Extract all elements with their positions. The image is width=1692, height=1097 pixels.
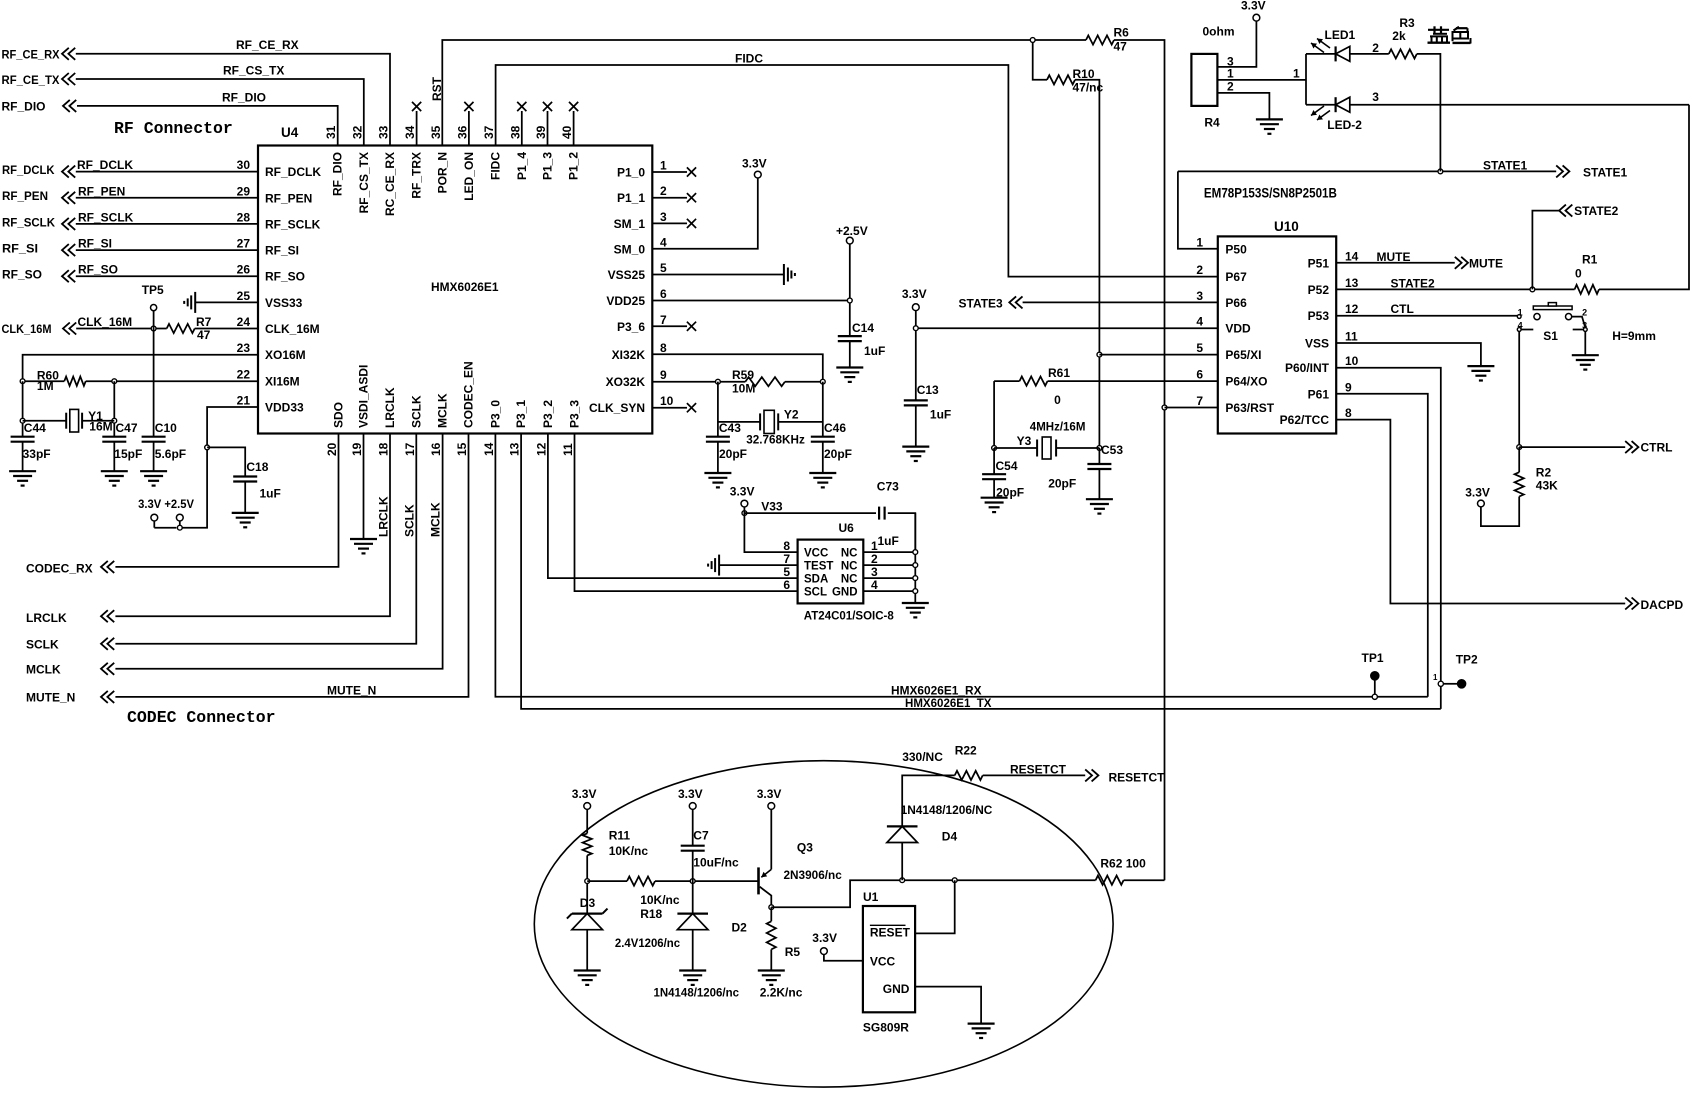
svg-text:R5: R5 (785, 945, 801, 959)
svg-text:RF_PEN: RF_PEN (2, 189, 48, 203)
svg-text:1uF: 1uF (260, 486, 281, 500)
svg-text:SCL: SCL (804, 586, 827, 598)
svg-text:12: 12 (1345, 302, 1359, 316)
svg-text:17: 17 (403, 442, 417, 456)
svg-text:19: 19 (350, 442, 364, 456)
svg-text:C54: C54 (996, 459, 1018, 473)
svg-text:P63/RST: P63/RST (1225, 401, 1274, 415)
svg-text:38: 38 (508, 125, 522, 139)
svg-text:0ohm: 0ohm (1203, 25, 1235, 39)
svg-text:CLK_16M: CLK_16M (78, 315, 133, 329)
svg-text:21: 21 (237, 394, 251, 408)
svg-text:3: 3 (1372, 90, 1379, 104)
svg-text:RF_SO: RF_SO (2, 268, 42, 282)
svg-text:10uF/nc: 10uF/nc (693, 856, 739, 870)
svg-text:3.3V: 3.3V (678, 787, 703, 801)
svg-text:VSS33: VSS33 (265, 296, 303, 310)
svg-text:1: 1 (1433, 673, 1438, 682)
svg-text:Y2: Y2 (784, 408, 799, 422)
svg-text:RESETCT: RESETCT (1010, 763, 1067, 777)
svg-text:R3: R3 (1399, 16, 1415, 30)
svg-text:R22: R22 (955, 744, 977, 758)
svg-text:1: 1 (1196, 235, 1203, 249)
svg-text:V33: V33 (761, 500, 783, 514)
svg-text:NC: NC (841, 560, 858, 572)
svg-text:P3_6: P3_6 (617, 320, 645, 334)
svg-text:10: 10 (1345, 354, 1359, 368)
svg-text:GND: GND (832, 586, 858, 598)
svg-text:3.3V: 3.3V (730, 484, 755, 498)
svg-text:4: 4 (660, 235, 667, 249)
svg-text:P50: P50 (1225, 242, 1247, 256)
svg-text:3: 3 (660, 210, 667, 224)
svg-text:R62 100: R62 100 (1100, 856, 1146, 870)
svg-text:3.3V: 3.3V (1241, 0, 1266, 13)
svg-text:25: 25 (237, 289, 251, 303)
svg-text:R1: R1 (1582, 253, 1598, 267)
svg-text:47: 47 (1114, 40, 1128, 54)
svg-text:24: 24 (237, 315, 251, 329)
svg-text:4: 4 (1196, 315, 1203, 329)
svg-text:RF_TRX: RF_TRX (410, 152, 424, 199)
svg-text:P61: P61 (1308, 387, 1330, 401)
svg-text:D2: D2 (732, 921, 748, 935)
svg-text:4: 4 (1518, 321, 1523, 331)
svg-text:1M: 1M (37, 379, 54, 393)
svg-text:3: 3 (871, 565, 878, 579)
svg-text:RC_CE_RX: RC_CE_RX (383, 152, 397, 216)
svg-text:LRCLK: LRCLK (26, 611, 67, 625)
svg-text:XI16M: XI16M (265, 374, 300, 388)
svg-text:R6: R6 (1114, 26, 1130, 40)
svg-text:RF_SCLK: RF_SCLK (2, 215, 55, 229)
svg-text:31: 31 (324, 125, 338, 139)
svg-text:FIDC: FIDC (489, 152, 503, 180)
svg-text:1: 1 (1518, 308, 1523, 318)
svg-text:1uF: 1uF (930, 408, 951, 422)
svg-text:RF_PEN: RF_PEN (78, 184, 125, 198)
svg-text:30: 30 (237, 158, 251, 172)
svg-text:33pF: 33pF (23, 447, 51, 461)
svg-text:C18: C18 (246, 460, 268, 474)
svg-text:1: 1 (1293, 67, 1300, 81)
svg-text:2: 2 (871, 552, 878, 566)
svg-text:EM78P153S/SN8P2501B: EM78P153S/SN8P2501B (1204, 184, 1337, 200)
svg-text:D3: D3 (580, 896, 596, 910)
svg-text:VDD33: VDD33 (265, 401, 304, 415)
svg-text:14: 14 (1345, 249, 1359, 263)
svg-text:3: 3 (1196, 289, 1203, 303)
svg-text:RESET: RESET (870, 926, 911, 940)
svg-text:3.3V: 3.3V (812, 931, 837, 945)
svg-text:26: 26 (237, 263, 251, 277)
svg-text:43K: 43K (1536, 479, 1558, 493)
svg-text:RF_SO: RF_SO (265, 270, 305, 284)
svg-text:POR_N: POR_N (435, 152, 449, 193)
svg-text:P53: P53 (1308, 309, 1330, 323)
svg-text:DACPD: DACPD (1641, 598, 1684, 612)
svg-text:R59: R59 (732, 368, 754, 382)
svg-text:2: 2 (660, 184, 667, 198)
svg-text:14: 14 (482, 442, 496, 456)
svg-text:D4: D4 (942, 830, 958, 844)
svg-text:LED-2: LED-2 (1327, 118, 1362, 132)
svg-text:P1_0: P1_0 (617, 166, 645, 180)
svg-text:39: 39 (534, 125, 548, 139)
svg-text:SDA: SDA (804, 573, 828, 585)
svg-text:U4: U4 (281, 125, 299, 140)
svg-text:TP5: TP5 (142, 283, 164, 297)
svg-text:34: 34 (403, 125, 417, 139)
svg-text:3.3V +2.5V: 3.3V +2.5V (138, 497, 194, 511)
svg-text:5.6pF: 5.6pF (155, 447, 186, 461)
svg-text:10: 10 (660, 394, 674, 408)
svg-text:32.768KHz: 32.768KHz (746, 432, 805, 446)
svg-text:5: 5 (1196, 341, 1203, 355)
svg-text:RF_DIO: RF_DIO (2, 100, 46, 114)
svg-text:P1_4: P1_4 (515, 152, 529, 180)
svg-text:RF_SI: RF_SI (2, 242, 38, 256)
svg-text:CODEC Connector: CODEC Connector (127, 708, 276, 727)
svg-text:C46: C46 (824, 421, 846, 435)
svg-text:MCLK: MCLK (429, 502, 443, 537)
svg-text:GND: GND (883, 982, 910, 996)
svg-text:VDD25: VDD25 (606, 294, 645, 308)
svg-text:STATE1: STATE1 (1583, 166, 1628, 180)
svg-text:SCLK: SCLK (26, 638, 59, 652)
svg-text:VDD: VDD (1225, 322, 1251, 336)
svg-text:S1: S1 (1543, 329, 1558, 343)
svg-text:RESETCT: RESETCT (1109, 771, 1166, 785)
svg-text:XO16M: XO16M (265, 348, 306, 362)
svg-text:CTRL: CTRL (1641, 441, 1673, 455)
svg-text:R4: R4 (1204, 116, 1220, 130)
svg-text:11: 11 (561, 443, 575, 456)
svg-text:47: 47 (197, 328, 211, 342)
svg-text:3.3V: 3.3V (742, 157, 767, 171)
svg-text:MCLK: MCLK (436, 393, 450, 428)
svg-text:RF_CE_RX: RF_CE_RX (2, 48, 60, 62)
svg-text:CLK_16M: CLK_16M (2, 322, 52, 336)
svg-text:32: 32 (350, 125, 364, 139)
svg-text:R7: R7 (196, 315, 212, 329)
svg-text:VSS25: VSS25 (608, 268, 646, 282)
svg-text:MUTE_N: MUTE_N (327, 684, 376, 698)
svg-text:U10: U10 (1274, 219, 1299, 234)
svg-text:C10: C10 (155, 421, 177, 435)
svg-text:RF_DIO: RF_DIO (331, 152, 345, 196)
svg-text:18: 18 (377, 442, 391, 456)
svg-text:HMX6026E1_TX: HMX6026E1_TX (905, 696, 992, 710)
svg-text:2: 2 (1372, 41, 1379, 55)
svg-text:20pF: 20pF (996, 485, 1024, 499)
svg-text:16: 16 (429, 442, 443, 456)
svg-text:6: 6 (660, 287, 667, 301)
svg-text:STATE3: STATE3 (959, 297, 1004, 311)
svg-text:20: 20 (325, 442, 339, 456)
svg-text:7: 7 (783, 552, 790, 566)
svg-text:SG809R: SG809R (863, 1021, 909, 1035)
svg-text:P3_2: P3_2 (541, 400, 555, 428)
svg-text:C43: C43 (719, 421, 741, 435)
svg-text:2: 2 (1196, 263, 1203, 277)
svg-text:5: 5 (783, 565, 790, 579)
svg-text:RF_CE_RX: RF_CE_RX (236, 38, 299, 52)
svg-text:10K/nc: 10K/nc (609, 844, 649, 858)
svg-text:R61: R61 (1048, 366, 1070, 380)
svg-text:10M: 10M (732, 381, 755, 395)
svg-text:R11: R11 (609, 828, 631, 842)
svg-text:P52: P52 (1308, 283, 1330, 297)
svg-text:P65/XI: P65/XI (1225, 348, 1261, 362)
svg-text:C73: C73 (877, 480, 899, 494)
svg-text:RF_SO: RF_SO (78, 263, 118, 277)
svg-text:TEST: TEST (804, 560, 833, 572)
svg-text:RF_SCLK: RF_SCLK (265, 217, 321, 231)
svg-text:XI32K: XI32K (612, 348, 646, 362)
svg-text:RF_CS_TX: RF_CS_TX (223, 64, 284, 78)
svg-text:15: 15 (455, 442, 469, 456)
svg-text:LED1: LED1 (1325, 28, 1356, 42)
svg-text:TP1: TP1 (1362, 651, 1384, 665)
svg-text:P67: P67 (1225, 270, 1247, 284)
svg-text:3.3V: 3.3V (757, 787, 782, 801)
svg-text:CTL: CTL (1391, 302, 1414, 316)
svg-text:SM_1: SM_1 (614, 217, 646, 231)
svg-text:47/nc: 47/nc (1073, 81, 1104, 95)
svg-text:CODEC_EN: CODEC_EN (462, 361, 476, 428)
svg-text:330/NC: 330/NC (902, 750, 943, 764)
svg-text:9: 9 (660, 368, 667, 382)
svg-text:1: 1 (1227, 67, 1234, 81)
svg-text:SDO: SDO (332, 402, 346, 428)
svg-text:RF_CE_TX: RF_CE_TX (2, 73, 60, 87)
svg-text:+2.5V: +2.5V (836, 224, 868, 238)
svg-text:1uF: 1uF (878, 534, 899, 548)
svg-text:C13: C13 (917, 383, 939, 397)
svg-text:C7: C7 (693, 828, 709, 842)
svg-text:P64/XO: P64/XO (1225, 375, 1267, 389)
svg-text:33: 33 (377, 125, 391, 139)
svg-text:VCC: VCC (870, 955, 896, 969)
svg-text:P1_2: P1_2 (567, 152, 581, 180)
svg-text:13: 13 (1345, 276, 1359, 290)
svg-text:10K/nc: 10K/nc (640, 893, 680, 907)
svg-text:RF_CS_TX: RF_CS_TX (357, 152, 371, 213)
svg-text:6: 6 (1196, 368, 1203, 382)
svg-text:LRCLK: LRCLK (383, 387, 397, 428)
svg-text:VSDI_ASDI: VSDI_ASDI (357, 365, 371, 428)
svg-text:20pF: 20pF (824, 447, 852, 461)
svg-text:Y3: Y3 (1017, 434, 1032, 448)
svg-text:P3_0: P3_0 (488, 400, 502, 428)
svg-text:MUTE: MUTE (1377, 250, 1411, 264)
svg-text:U1: U1 (863, 890, 879, 904)
svg-text:6: 6 (783, 578, 790, 592)
svg-text:2k: 2k (1392, 29, 1406, 43)
svg-text:RF_SI: RF_SI (78, 237, 112, 251)
svg-text:XO32K: XO32K (606, 375, 646, 389)
svg-text:NC: NC (841, 547, 858, 559)
svg-text:5: 5 (660, 261, 667, 275)
svg-text:MUTE: MUTE (1469, 257, 1503, 271)
svg-text:RF Connector: RF Connector (114, 119, 233, 138)
svg-text:HMX6026E1: HMX6026E1 (431, 280, 499, 294)
svg-text:R10: R10 (1073, 67, 1095, 81)
svg-text:20pF: 20pF (1048, 477, 1076, 491)
svg-text:RF_DIO: RF_DIO (222, 91, 266, 105)
svg-text:15pF: 15pF (114, 447, 142, 461)
svg-text:1uF: 1uF (864, 344, 885, 358)
svg-text:9: 9 (1345, 380, 1352, 394)
svg-text:7: 7 (1196, 394, 1203, 408)
svg-text:MUTE_N: MUTE_N (26, 691, 75, 705)
svg-text:VCC: VCC (804, 547, 828, 559)
svg-text:7: 7 (660, 313, 667, 327)
svg-text:VSS: VSS (1305, 337, 1329, 351)
svg-text:CLK_SYN: CLK_SYN (589, 401, 645, 415)
svg-text:CODEC_RX: CODEC_RX (26, 562, 93, 576)
svg-text:MCLK: MCLK (26, 663, 61, 677)
svg-text:RF_SCLK: RF_SCLK (78, 210, 134, 224)
svg-text:3.3V: 3.3V (902, 287, 927, 301)
svg-text:STATE2: STATE2 (1574, 204, 1619, 218)
svg-text:11: 11 (1345, 330, 1358, 344)
svg-text:2: 2 (1227, 80, 1234, 94)
svg-text:RF_SI: RF_SI (265, 244, 299, 258)
svg-text:3: 3 (1582, 321, 1587, 331)
svg-text:C14: C14 (852, 321, 874, 335)
svg-text:R18: R18 (640, 907, 662, 921)
svg-text:C47: C47 (116, 421, 138, 435)
svg-text:2: 2 (1582, 308, 1587, 318)
svg-text:NC: NC (841, 573, 858, 585)
svg-text:12: 12 (534, 442, 548, 456)
svg-text:2N3906/nc: 2N3906/nc (784, 868, 843, 882)
svg-text:4: 4 (871, 578, 878, 592)
svg-text:LRCLK: LRCLK (377, 496, 391, 537)
svg-text:SCLK: SCLK (403, 504, 417, 537)
svg-text:2.2K/nc: 2.2K/nc (760, 985, 803, 999)
svg-text:1N4148/1206/NC: 1N4148/1206/NC (901, 803, 993, 817)
svg-text:0: 0 (1575, 266, 1582, 280)
svg-text:4MHz/16M: 4MHz/16M (1030, 419, 1086, 433)
svg-text:8: 8 (1345, 406, 1352, 420)
svg-text:RF_DCLK: RF_DCLK (2, 163, 55, 177)
svg-text:H=9mm: H=9mm (1612, 329, 1656, 343)
svg-text:23: 23 (237, 341, 251, 355)
svg-text:SM_0: SM_0 (614, 242, 646, 256)
svg-text:40: 40 (560, 125, 574, 139)
svg-text:36: 36 (455, 125, 469, 139)
svg-text:P1_3: P1_3 (541, 152, 555, 180)
svg-text:P62/TCC: P62/TCC (1280, 413, 1330, 427)
svg-text:STATE2: STATE2 (1391, 277, 1436, 291)
svg-text:AT24C01/SOIC-8: AT24C01/SOIC-8 (804, 609, 894, 623)
svg-text:8: 8 (660, 341, 667, 355)
svg-text:37: 37 (482, 125, 496, 139)
svg-text:RF_PEN: RF_PEN (265, 191, 312, 205)
svg-text:0: 0 (1054, 393, 1061, 407)
svg-text:CLK_16M: CLK_16M (265, 322, 320, 336)
svg-text:3.3V: 3.3V (572, 787, 597, 801)
svg-text:R2: R2 (1536, 466, 1552, 480)
svg-text:3.3V: 3.3V (1465, 486, 1490, 500)
svg-text:1: 1 (660, 159, 667, 173)
svg-text:20pF: 20pF (719, 447, 747, 461)
svg-text:P3_1: P3_1 (514, 400, 528, 428)
svg-text:22: 22 (237, 367, 251, 381)
svg-text:LED_ON: LED_ON (462, 152, 476, 201)
svg-text:P66: P66 (1225, 296, 1247, 310)
svg-text:28: 28 (237, 210, 251, 224)
svg-text:RF_DCLK: RF_DCLK (265, 165, 321, 179)
svg-text:13: 13 (508, 442, 522, 456)
svg-text:1N4148/1206/nc: 1N4148/1206/nc (654, 985, 740, 999)
svg-text:RST: RST (430, 76, 444, 101)
svg-text:8: 8 (783, 539, 790, 553)
svg-text:SCLK: SCLK (409, 395, 423, 428)
svg-text:Q3: Q3 (797, 840, 813, 854)
svg-text:P3_3: P3_3 (568, 400, 582, 428)
svg-text:RF_DCLK: RF_DCLK (77, 158, 133, 172)
svg-text:U6: U6 (839, 521, 855, 535)
svg-text:29: 29 (237, 184, 251, 198)
svg-text:C44: C44 (24, 421, 46, 435)
svg-text:P60/INT: P60/INT (1285, 361, 1330, 375)
svg-text:TP2: TP2 (1456, 652, 1478, 666)
svg-text:FIDC: FIDC (735, 52, 763, 66)
svg-text:P1_1: P1_1 (617, 191, 645, 205)
svg-text:2.4V1206/nc: 2.4V1206/nc (615, 936, 681, 950)
svg-text:STATE1: STATE1 (1483, 159, 1528, 173)
svg-text:27: 27 (237, 237, 251, 251)
svg-text:35: 35 (429, 125, 443, 139)
svg-text:C53: C53 (1101, 443, 1123, 457)
svg-text:16M: 16M (89, 420, 112, 434)
svg-text:P51: P51 (1308, 256, 1330, 270)
